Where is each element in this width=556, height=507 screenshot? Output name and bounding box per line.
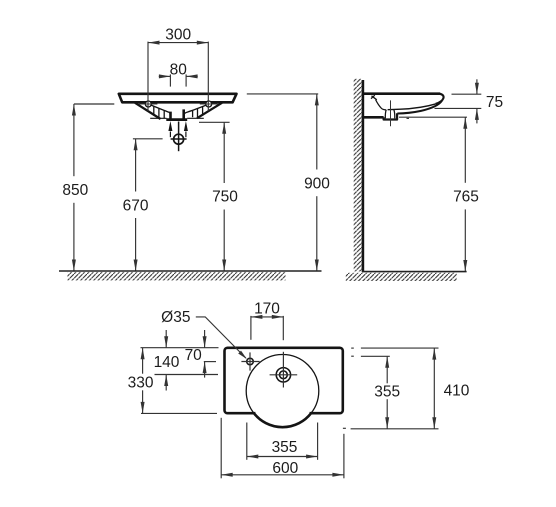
front view: fixing hole right bbox=[200, 101, 218, 107]
front view: dim text 670 bbox=[123, 197, 149, 214]
plan view: extension line bowl top (right) bbox=[361, 355, 390, 357]
front view: trap circle bbox=[171, 122, 187, 152]
side view: extension line rim underside (75) bbox=[435, 107, 482, 109]
front view: dimension line 850 bbox=[72, 104, 76, 271]
svg-text:300: 300 bbox=[165, 27, 191, 44]
front view: bowl inner line right bbox=[184, 105, 207, 117]
side view: extension line basin underside (765) bbox=[399, 117, 467, 118]
plan view: dimension line 600 bbox=[221, 473, 344, 477]
svg-text:70: 70 bbox=[185, 347, 203, 364]
side view: surface break mark bbox=[371, 95, 377, 100]
front view: extension line at rim underside (850) bbox=[74, 103, 114, 105]
svg-text:750: 750 bbox=[212, 189, 238, 206]
side view: inner surface curve bbox=[376, 100, 387, 110]
side view: basin top rim bbox=[362, 92, 440, 95]
plan view: extension line rect top (right) bbox=[361, 347, 439, 349]
front view: dim text 300 bbox=[165, 27, 191, 44]
front view: bowl underside edge right bbox=[187, 117, 204, 119]
svg-text:170: 170 bbox=[254, 301, 280, 318]
side view: drain centreline bbox=[390, 100, 392, 126]
plan view: dimension line 330 bbox=[141, 348, 145, 414]
plan view: dim text 355 bottom bbox=[272, 439, 298, 456]
front view: dim text 900 bbox=[304, 175, 330, 192]
plan view: extension lines dim 355 bottom bbox=[247, 423, 318, 460]
plan view: dimension line 355 bottom bbox=[247, 455, 318, 459]
plan view: extension line waste centre bbox=[155, 374, 219, 376]
plan view: dim text 600 bbox=[272, 460, 298, 477]
front view: extension line at trap centre (670) bbox=[133, 138, 163, 140]
front view: dim text 80 bbox=[170, 61, 188, 78]
plan view: dimension line 70 (outside arrows) bbox=[203, 330, 207, 378]
side view: basin bottom at wall bbox=[362, 116, 384, 119]
front view: dimension line 300 bbox=[148, 41, 208, 45]
front view: dimension line 750 bbox=[222, 122, 226, 271]
plan view: extension line tap centre bbox=[204, 361, 216, 363]
front view: dimension line 80 bbox=[159, 74, 198, 78]
side view: dimension line 765 bbox=[463, 117, 467, 271]
front view: bowl inner line left bbox=[151, 105, 171, 118]
plan view: dim text 170 bbox=[254, 301, 280, 318]
svg-text:140: 140 bbox=[154, 354, 180, 371]
svg-text:670: 670 bbox=[123, 197, 149, 214]
front view: floor hatching bbox=[68, 272, 286, 280]
front view: extension line at rim top (900) bbox=[247, 93, 318, 95]
plan view: dim text 355 right bbox=[374, 384, 400, 401]
plan view: extension line rect bottom (left) bbox=[141, 412, 217, 414]
svg-text:765: 765 bbox=[453, 189, 479, 206]
side view: basin tip bbox=[436, 94, 444, 104]
front view: dimension line 670 bbox=[134, 139, 138, 271]
svg-text:355: 355 bbox=[272, 439, 298, 456]
side view: extension line rim top (75) bbox=[452, 93, 482, 95]
plan view: extension lines dim 600 bbox=[221, 418, 344, 479]
plan view: label O35 bbox=[161, 309, 190, 326]
front view: bowl outer wall right bbox=[197, 103, 222, 118]
svg-text:80: 80 bbox=[170, 61, 188, 78]
svg-text:75: 75 bbox=[486, 94, 503, 111]
plan view: waste outlet bbox=[270, 352, 298, 388]
side view: dim text 765 bbox=[453, 189, 479, 206]
front view: bowl underside edge left bbox=[150, 117, 166, 119]
side view: dim text 75 bbox=[486, 94, 503, 111]
plan view: dimension line 410 bbox=[432, 348, 436, 429]
plan view: dimension line 170 bbox=[251, 315, 283, 319]
plan view: bowl protruding arc bbox=[254, 413, 311, 427]
svg-text:410: 410 bbox=[444, 382, 470, 399]
plan view: extension lines dim 170 bbox=[251, 316, 283, 340]
front view: drain underside arrow marks bbox=[168, 121, 188, 137]
front view: floor line bbox=[59, 270, 322, 272]
plan view: centreline dashes right edge bbox=[343, 348, 354, 428]
front view: basin rim (wall-hung washbasin, front elevation) bbox=[119, 94, 237, 103]
svg-text:Ø35: Ø35 bbox=[161, 309, 190, 326]
svg-text:850: 850 bbox=[62, 182, 88, 199]
plan view: dim text 410 bbox=[444, 382, 470, 399]
plan view: gap in rectangle bottom edge for bowl bbox=[255, 411, 309, 415]
front view: dimension line 900 bbox=[315, 94, 319, 271]
plan view: basin body rectangle bbox=[225, 348, 343, 413]
front view: bowl rib ticks right bbox=[193, 107, 203, 118]
front view: extension ticks for dim 80 bbox=[170, 74, 186, 86]
plan view: bowl circle bbox=[246, 355, 319, 428]
svg-text:330: 330 bbox=[128, 374, 154, 391]
front view: extension lines for dim 300 bbox=[148, 42, 208, 111]
plan view: dim text 330 bbox=[128, 374, 154, 391]
svg-text:900: 900 bbox=[304, 175, 330, 192]
side view: bowl underside outer bbox=[397, 101, 442, 114]
front view: dim text 750 bbox=[212, 189, 238, 206]
side view: drain funnel walls bbox=[385, 110, 395, 119]
svg-text:600: 600 bbox=[272, 460, 298, 477]
plan view: dimension line 140 (outside arrows) bbox=[164, 330, 168, 391]
front view: bowl rib ticks left bbox=[154, 107, 164, 119]
plan view: dimension line 355 right bbox=[385, 356, 389, 429]
plan view: extension line bottom (right) bbox=[351, 428, 439, 430]
side view: wall hatching bbox=[354, 79, 363, 272]
side view: floor line bbox=[362, 271, 467, 273]
front view: fixing hole left bbox=[139, 101, 157, 107]
plan view: tap hole O35 bbox=[241, 352, 259, 370]
front view: dim text 850 bbox=[62, 182, 88, 199]
front view: extension line at drain underside (750) bbox=[199, 121, 230, 123]
side view: dimension line 75 bbox=[475, 79, 479, 123]
plan view: extension line rect top (left) bbox=[141, 347, 219, 349]
side view: wall line bbox=[362, 80, 365, 272]
front view: drain outlet bbox=[166, 109, 187, 119]
plan view: leader line O35 bbox=[196, 317, 247, 359]
front view: bowl outer wall left bbox=[135, 103, 161, 119]
side view: floor hatching bbox=[346, 273, 457, 281]
side view: drain flange bbox=[384, 113, 398, 119]
svg-text:355: 355 bbox=[374, 384, 400, 401]
plan view: dim text 70 bbox=[185, 347, 203, 364]
plan view: dim text 140 bbox=[154, 354, 180, 371]
side view: bowl inner rim line bbox=[388, 104, 436, 110]
